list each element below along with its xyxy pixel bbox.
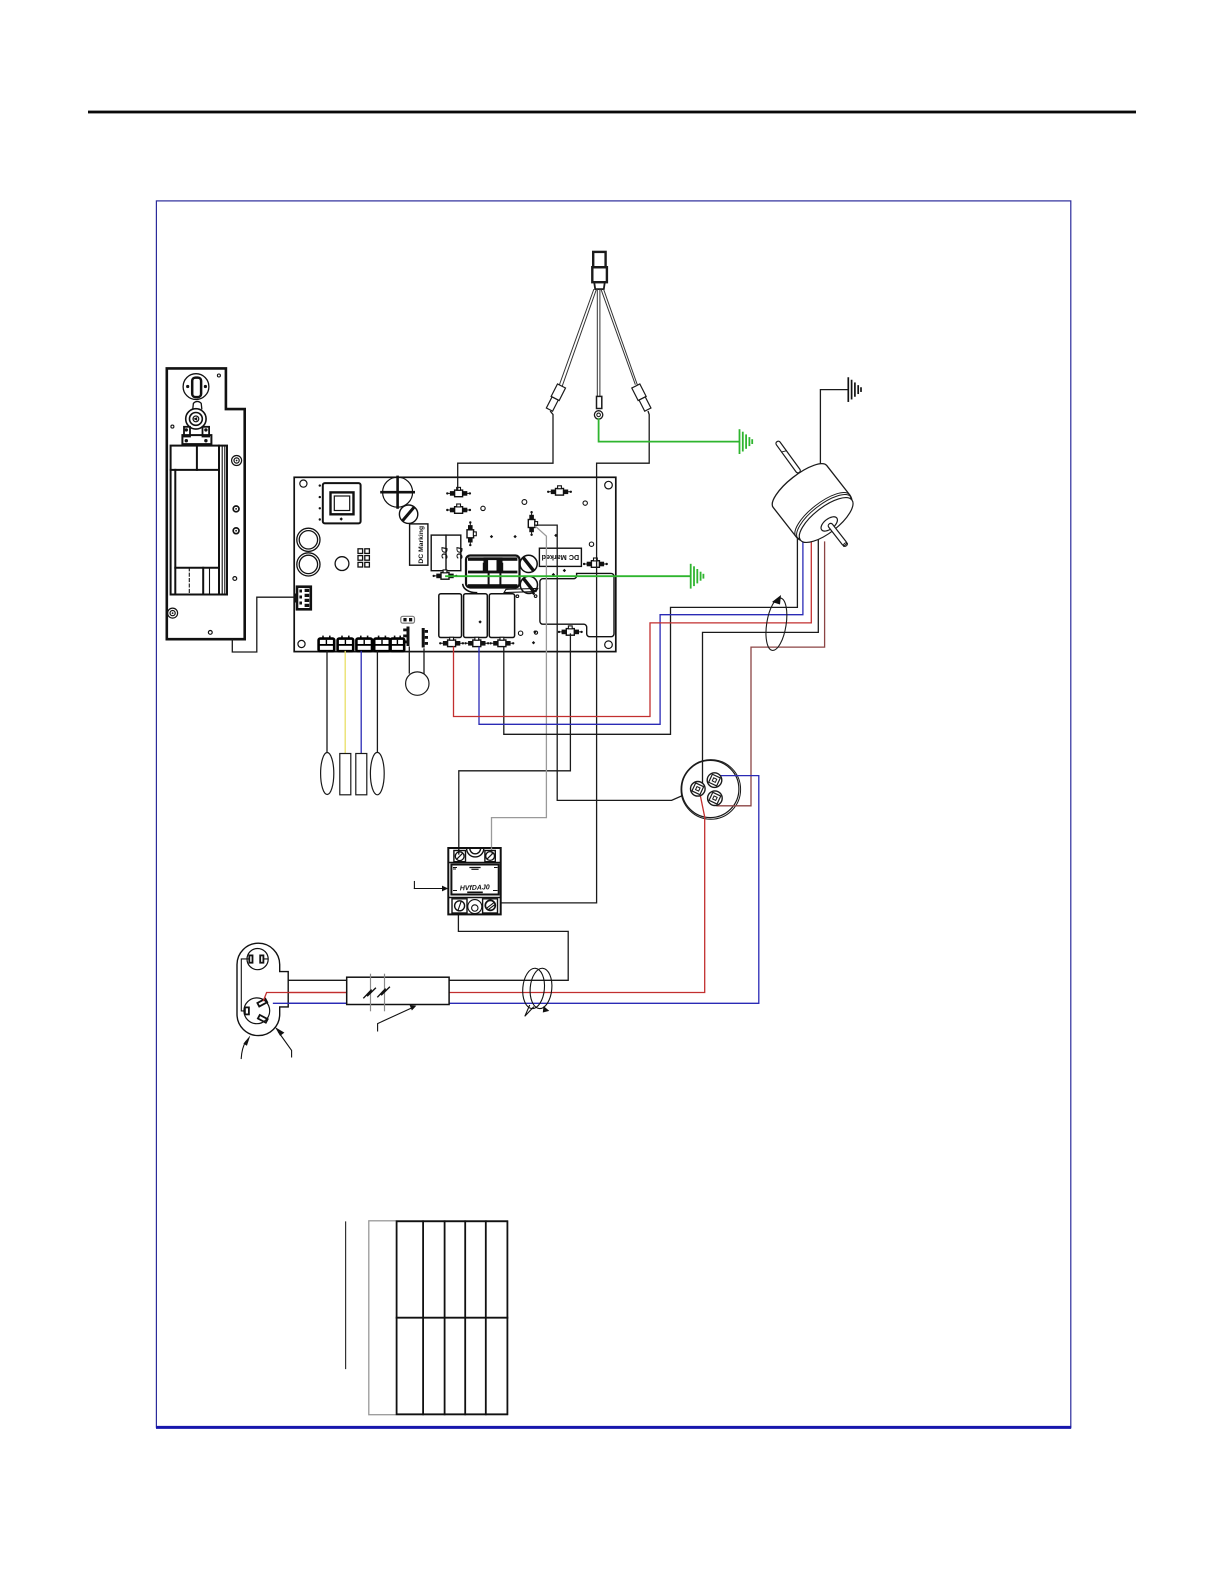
run capacitor C1 body [682, 760, 739, 817]
cord coil loop [521, 967, 553, 1016]
lock mounting bracket [182, 427, 211, 444]
fuse break mark 2 [378, 974, 390, 1010]
PCB corner hole TL [300, 480, 307, 487]
wire PCB to capacitor terminal [535, 525, 697, 800]
capacitor terminal 2 [707, 773, 722, 788]
plug pointer arrow 1 [241, 1035, 250, 1058]
heatsink plate [540, 573, 614, 636]
harness right branch wire [601, 290, 638, 386]
PCB corner hole BL [298, 640, 305, 647]
fuse F106 [583, 558, 608, 567]
ground symbol green 2 [691, 565, 704, 588]
transformer T1 [466, 556, 520, 588]
DC Marked label box [539, 548, 581, 566]
motor rear shaft [775, 440, 801, 473]
transformer left hook [463, 585, 477, 593]
terminal block TB5 [391, 639, 405, 652]
wire SSR output 2 to mains [288, 914, 568, 980]
thermistor wire 2 [423, 649, 425, 674]
header rule [88, 111, 1136, 114]
sensor wire black 1 [326, 652, 328, 754]
wire harness-right to SSR output [501, 412, 650, 903]
potentiometer P2 [520, 576, 537, 593]
bracket dot bottom [208, 631, 212, 635]
green earth wire 1 [599, 419, 739, 441]
terminal block TB4 [374, 639, 390, 652]
fuse F110 [489, 637, 514, 646]
green earth wire 2 [446, 575, 690, 577]
diagram border frame [156, 201, 1070, 1427]
middle lead terminal [597, 396, 602, 408]
ground symbol green 1 [740, 430, 753, 453]
DC DC label box [431, 535, 464, 571]
relay RL2 [464, 594, 488, 638]
relay RL3 [489, 594, 514, 638]
fuse F104 vertical [467, 521, 476, 546]
fuse box F1 [347, 977, 449, 1004]
sensor wire yellow [344, 652, 346, 755]
gray control wire to SSR [492, 526, 547, 848]
terminal block TB3 [356, 639, 372, 652]
ground wire motor [820, 390, 847, 478]
solid state relay SSR1 [448, 848, 500, 914]
fan motor M1 [766, 457, 873, 567]
svg-text:DC Marking: DC Marking [418, 526, 425, 564]
fuse F103 [547, 486, 572, 495]
ferrule right [632, 384, 652, 412]
PCB corner hole TR [605, 481, 613, 489]
plug pointer arrow 2 [275, 1027, 292, 1057]
header JP2 [422, 628, 428, 648]
terminal block TB1 [319, 639, 335, 652]
mounting bracket outline [167, 368, 245, 639]
jumper block J2 [358, 549, 369, 567]
wire fuse F107 to SSR input [459, 634, 571, 849]
fuse F109 [464, 637, 489, 646]
relay K1 square connector [319, 483, 361, 523]
fuse F107 [558, 626, 583, 635]
svg-text:HVfDAJ0: HVfDAJ0 [460, 884, 490, 892]
header JP1 [401, 616, 415, 646]
wire capacitor blue to mains [274, 776, 759, 1004]
thermistor wire 1 [408, 647, 410, 673]
capacitor terminal 3 [708, 791, 723, 806]
PCB left connector J1 [294, 587, 311, 610]
bracket screw bottom-left [168, 608, 178, 618]
motor wire black B to capacitor [703, 540, 819, 784]
sensor bulb 1 [321, 753, 334, 795]
terminal block pins [323, 636, 400, 639]
bracket hole 3 [233, 577, 237, 581]
lock barrel [186, 409, 206, 429]
PCB vias [481, 500, 594, 636]
bracket panel [171, 446, 227, 595]
fuse F111 [433, 570, 458, 579]
capacitor ring CE2 [297, 553, 320, 576]
capacitor ring CE1 [297, 528, 320, 551]
svg-text:DC Marked: DC Marked [542, 553, 580, 562]
sensor bulb 2 [340, 754, 351, 795]
relay RL1 [439, 594, 462, 638]
bracket hole 2 [233, 528, 239, 534]
fuse F102 [446, 504, 471, 513]
sensor bulb 3 [356, 754, 367, 795]
harness middle branch wire [597, 290, 600, 397]
bracket dot top [217, 374, 220, 377]
ferrule left [545, 384, 565, 412]
svg-text:DC: DC [440, 547, 450, 560]
terminal block TB2 [338, 639, 354, 652]
sensor bulb 4 [370, 752, 384, 794]
motor wire black A [504, 535, 798, 734]
ring CE3 [335, 557, 349, 571]
PCB pads [340, 517, 567, 644]
fuse pointer arrow [378, 1005, 417, 1031]
fuse break mark 1 [364, 974, 376, 1010]
sensor wire blue [360, 652, 362, 755]
PCB corner hole BR [605, 641, 613, 649]
motor wire blue [479, 537, 803, 724]
crystal X1 cross circle [382, 477, 414, 508]
motor wire red [454, 538, 812, 717]
power plug P1 [237, 943, 348, 1035]
spec table grid [369, 1221, 508, 1415]
fuse F105 vertical [528, 511, 537, 536]
bracket hole 1 [233, 506, 239, 512]
capacitor terminal 1 [691, 782, 706, 797]
control PCB board [294, 477, 616, 651]
sensor wire black 2 [376, 652, 378, 754]
fuse F101 [446, 487, 471, 496]
trimmer VR1 [399, 505, 417, 523]
fuse F108 [439, 637, 464, 646]
bracket screw top-right [232, 456, 242, 466]
table side line [345, 1222, 347, 1369]
ring terminal [594, 411, 602, 419]
harness connector X1 [592, 252, 607, 289]
harness left branch wire [560, 290, 597, 386]
DC Marking label box [410, 524, 428, 565]
SSR pointer arrow [414, 882, 448, 892]
transformer right wing [504, 588, 538, 592]
wire bracket to PCB [232, 597, 295, 652]
cable tie loop [763, 595, 790, 652]
motor wire maroon to capacitor [717, 542, 825, 806]
potentiometer P1 [520, 555, 537, 572]
wire capacitor red to mains [262, 792, 705, 1001]
wire harness-left to PCB [458, 412, 553, 490]
lock collar [193, 401, 202, 408]
keyhole cutout [183, 374, 209, 400]
svg-text:DC: DC [454, 547, 464, 560]
bracket dot mid [171, 425, 174, 428]
thermistor RT1 [406, 672, 429, 695]
ground symbol black [848, 378, 861, 401]
